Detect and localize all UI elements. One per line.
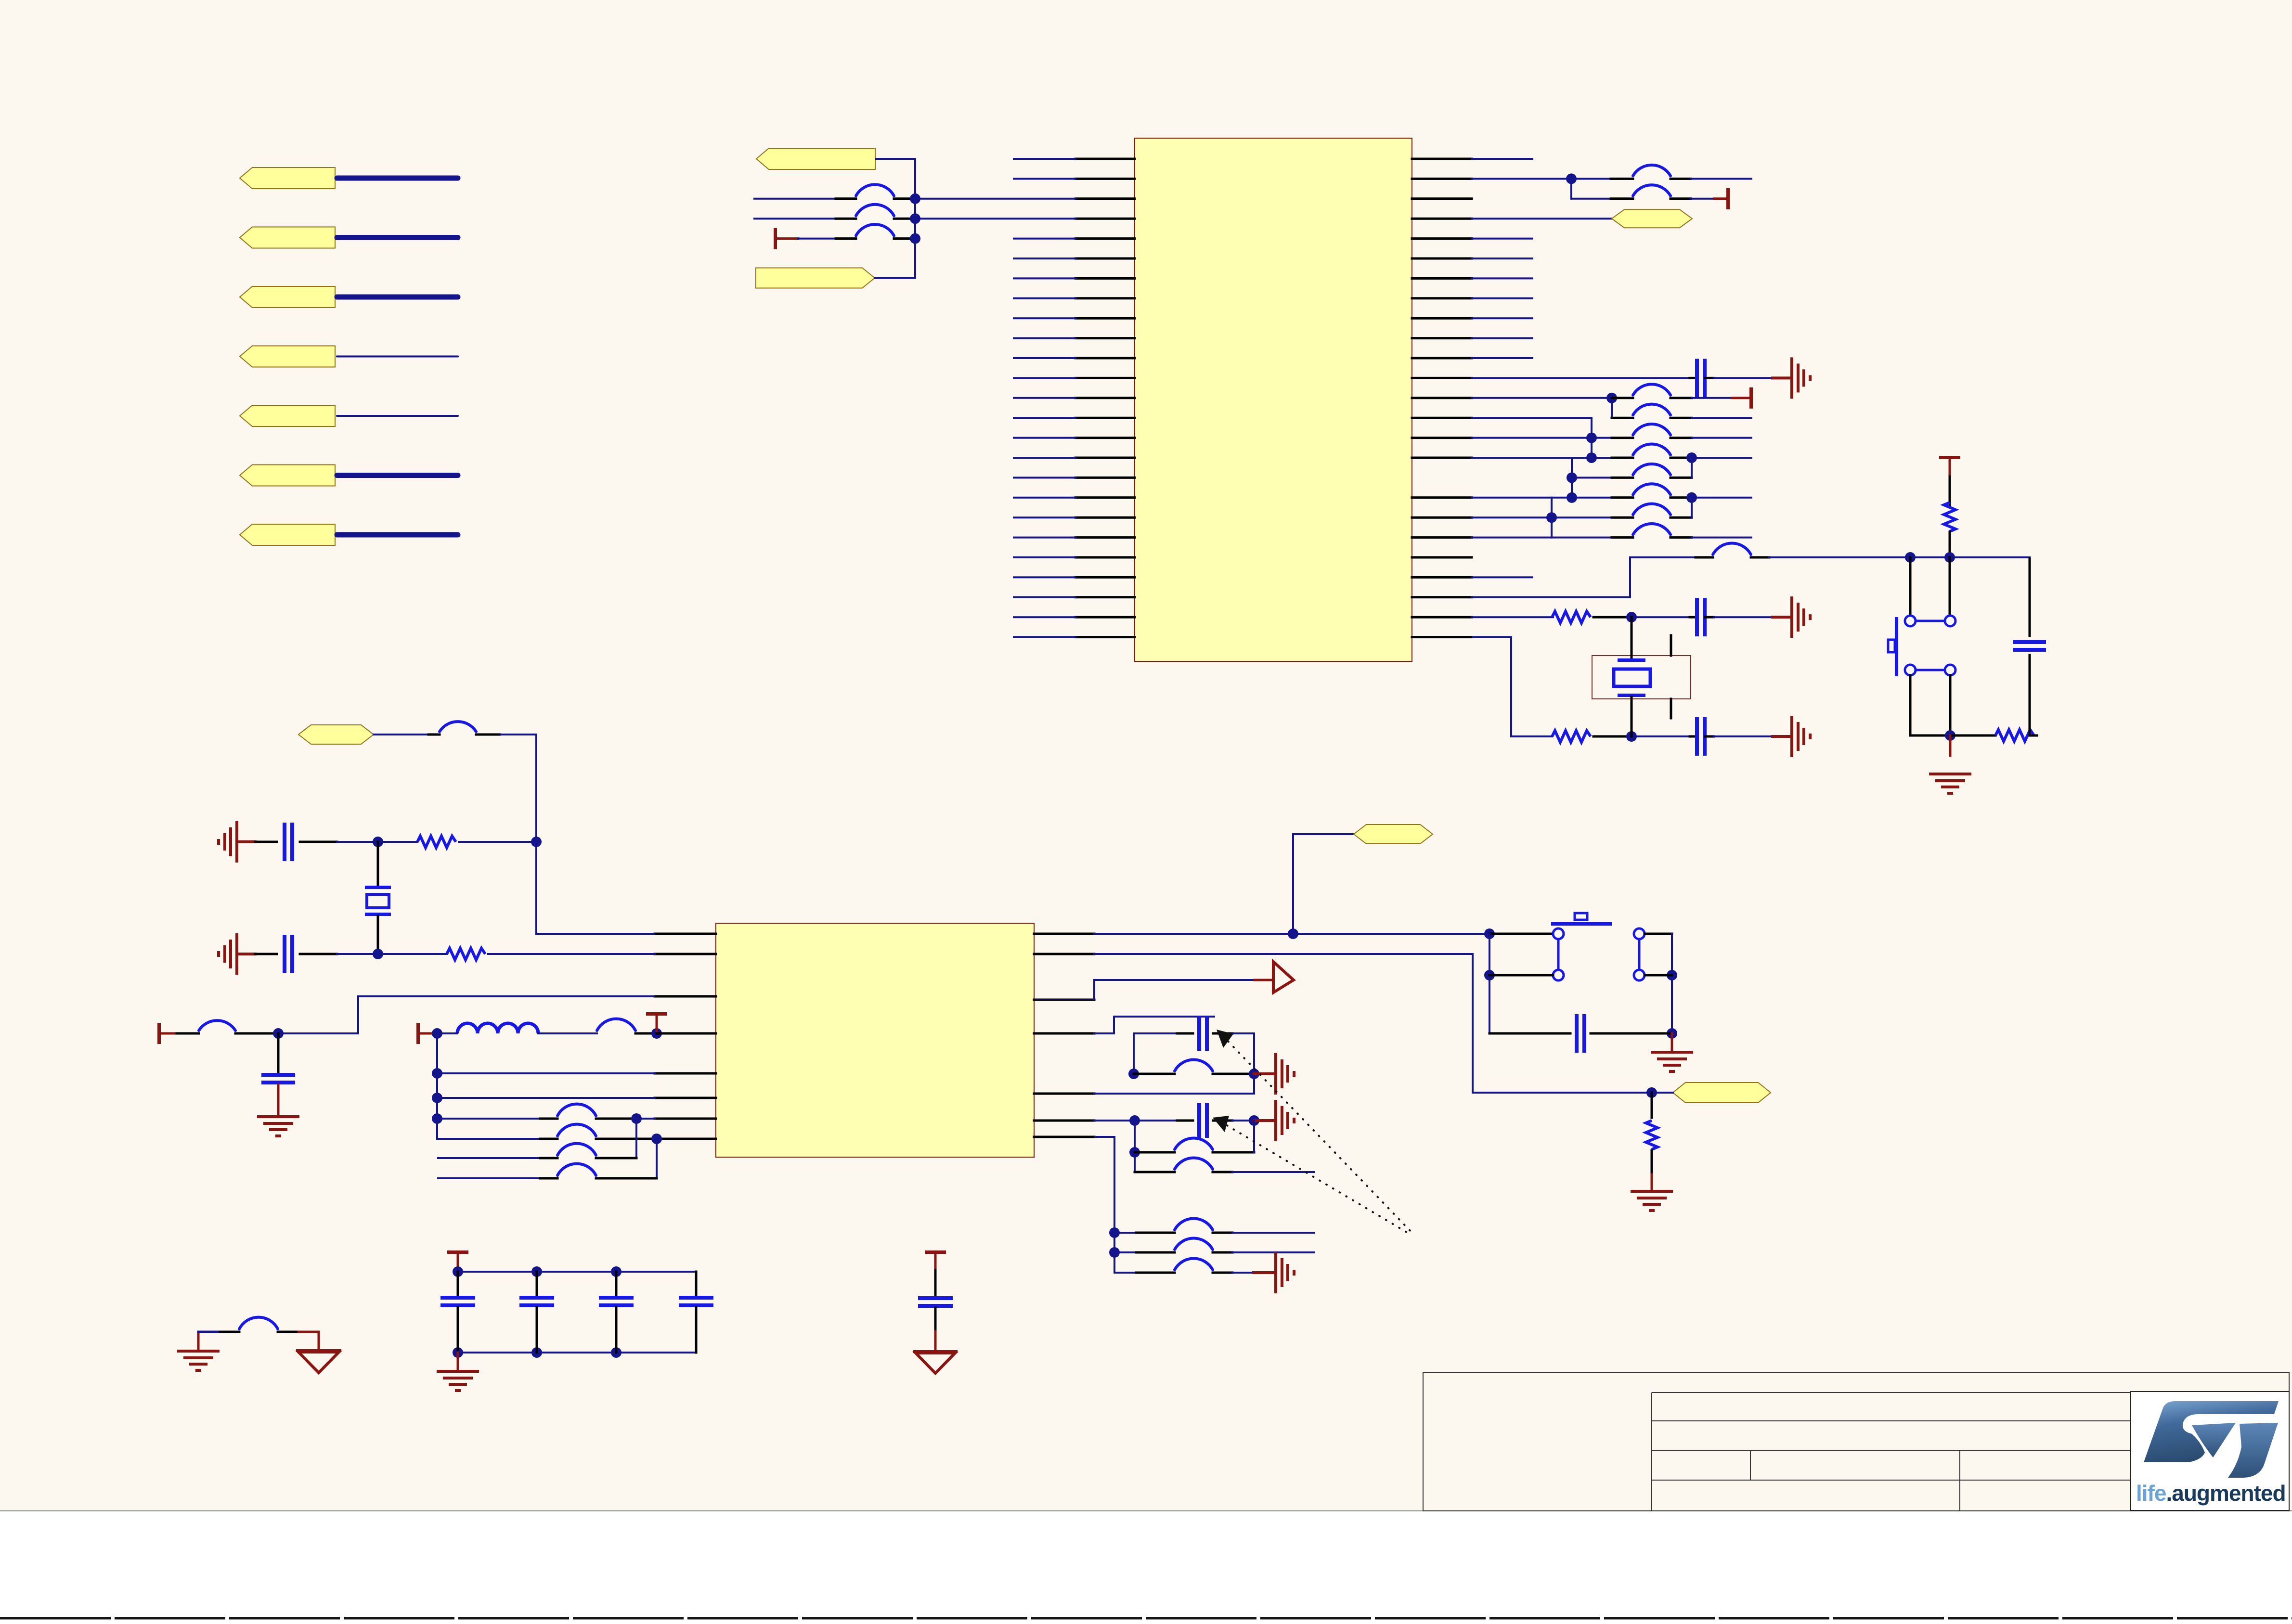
maroon stem xyxy=(1651,1174,1653,1191)
ferrite bead FB (block1) xyxy=(1175,1060,1213,1071)
wire row 2644 xyxy=(1114,1272,1136,1274)
capacitor C (block1) xyxy=(1197,1016,1201,1051)
wire xyxy=(1714,735,1773,737)
U1 left pin row 330.0 xyxy=(1075,158,1135,160)
U2 right pin row 2077 xyxy=(1034,999,1094,1001)
stub xyxy=(278,1331,298,1333)
wire to switch contact xyxy=(1949,557,1951,616)
junction bottom 1 xyxy=(453,1347,463,1358)
junction right 950 xyxy=(1686,452,1697,463)
power bar (reset pullup) xyxy=(1939,456,1960,459)
wire to switch contact xyxy=(1909,557,1912,616)
black lead to node xyxy=(1949,532,1951,557)
wire right to triangle ground xyxy=(298,1332,319,1351)
U1 right pin row 785.4 xyxy=(1412,377,1472,379)
black stub row 868.2 right xyxy=(1670,417,1692,419)
black stub row 909.6 xyxy=(1612,437,1633,439)
junction VDD at pin xyxy=(651,1028,662,1039)
U1 left pin wire stub row 537.0 xyxy=(1014,258,1075,259)
junction 950 xyxy=(1586,452,1597,463)
wire row 2230 xyxy=(437,1072,655,1074)
annotation dotted arrow 2 xyxy=(1220,1121,1411,1235)
net stub row 330.0 xyxy=(1472,158,1532,160)
cap branch lower xyxy=(2029,655,2031,735)
wire from port P5 xyxy=(337,415,458,417)
capacitor C1 (bank) xyxy=(440,1296,475,1300)
U1 left pin wire stub row 868.2 xyxy=(1014,417,1075,419)
wire row 992.4 xyxy=(1572,477,1612,478)
crystal X2 bottom plate xyxy=(365,913,391,916)
capacitor C2 top lead xyxy=(536,1272,538,1296)
wire row 2602 xyxy=(1114,1251,1136,1253)
U1 left pin wire stub row 1075.2 xyxy=(1014,516,1075,518)
stub xyxy=(635,1032,657,1035)
ferrite bead FB row 2602 xyxy=(1175,1238,1213,1250)
junction top 2 xyxy=(531,1266,542,1277)
U1 left pin row 1199.4 xyxy=(1075,576,1135,579)
black stub row 496 right xyxy=(894,237,914,240)
cap row right xyxy=(1591,1032,1672,1035)
U2 left pin row 2366 xyxy=(655,1138,716,1140)
maroon stem to ground xyxy=(1949,735,1952,756)
maroon lead row 413 xyxy=(1714,197,1726,200)
capacitor C4 top lead xyxy=(695,1272,698,1296)
U1 right pin row 661.2 xyxy=(1412,317,1472,320)
capacitor C (row 1749) xyxy=(283,823,286,861)
maroon lead xyxy=(1254,1271,1274,1274)
power bar (single cap) xyxy=(925,1250,946,1254)
arrow lead xyxy=(1255,979,1273,981)
net stub row 744.0 xyxy=(1472,357,1532,359)
wire row 1241 xyxy=(1472,596,1630,598)
wire from contact xyxy=(1645,933,1672,935)
U1 left pin wire stub row 1199.4 xyxy=(1014,576,1075,578)
U1 left pin wire stub row 785.4 xyxy=(1014,377,1075,379)
junction crystal2 bottom xyxy=(373,949,383,959)
stub xyxy=(1213,1073,1254,1075)
IC U1 (main MCU) xyxy=(1135,138,1412,661)
junction 2324 xyxy=(432,1113,442,1124)
wire row 785 cont xyxy=(1714,377,1773,379)
junction row 371 xyxy=(1566,173,1577,184)
black stub row 785 right xyxy=(1705,377,1714,379)
net flag row 454 xyxy=(1612,209,1692,228)
wire xyxy=(337,841,378,843)
wire from port P2 xyxy=(337,235,458,240)
net stub row 702.6 xyxy=(1472,337,1532,339)
bottom dashed border xyxy=(0,1617,2292,1620)
ferrite bead FB row 2644 xyxy=(1175,1259,1213,1270)
U1 left pin row 412.8 xyxy=(1075,197,1135,200)
switch actuator xyxy=(1551,922,1612,926)
stub xyxy=(1213,1171,1232,1173)
U1 left pin row 1075.2 xyxy=(1075,516,1135,519)
black stub row 826.8 xyxy=(1612,397,1633,399)
stub xyxy=(596,1138,657,1140)
ferrite bead FB row 992.4 xyxy=(1633,464,1670,475)
black stub row 412.8 right xyxy=(894,197,915,200)
black stub row 454.2 right xyxy=(894,218,915,220)
block2 left vertical xyxy=(1134,1121,1136,1172)
U1 left pin wire stub row 661.2 xyxy=(1014,317,1075,319)
ferrite bead FB row 951.0 xyxy=(1633,444,1670,455)
stub xyxy=(540,1138,557,1140)
wire row 1940 xyxy=(1094,933,1293,935)
resistor R (row 1982) xyxy=(447,948,485,960)
stub xyxy=(540,1157,557,1160)
junction 1075 xyxy=(1546,512,1557,523)
net stub row 578.4 xyxy=(1472,277,1532,279)
wire from crystal bottom plate xyxy=(1631,697,1633,736)
port P7 (left column) xyxy=(240,524,335,545)
U1 left pin wire stub row 578.4 xyxy=(1014,277,1075,279)
vertical 1033-1116 xyxy=(1551,498,1553,538)
U1 left pin wire stub row 1033.8 xyxy=(1014,497,1075,499)
port flag B (lower left of U1) xyxy=(756,268,875,288)
ground GND (reset) xyxy=(1929,773,1971,775)
capacitor C (reset) xyxy=(2013,640,2046,644)
U2 left pin row 1940 xyxy=(655,933,716,935)
junction block2 right xyxy=(1249,1115,1259,1126)
U2 right pin row 2272 xyxy=(1034,1093,1094,1095)
junction bottom 2 xyxy=(531,1347,542,1358)
wire xyxy=(1651,1150,1653,1174)
wire from contact row2 xyxy=(1645,974,1672,977)
stub xyxy=(1134,1073,1175,1075)
U1 left pin row 744.0 xyxy=(1075,357,1135,360)
net stub row 2406 xyxy=(438,1157,540,1159)
U1 left pin row 951.0 xyxy=(1075,457,1135,459)
capacitor C3 top lead xyxy=(615,1272,618,1296)
net stub row 867 end xyxy=(1692,417,1751,419)
stub xyxy=(1213,1251,1232,1254)
black stub row 1116.6 xyxy=(1612,536,1633,539)
port P2 (left column) xyxy=(240,227,335,248)
jog stub xyxy=(1114,1016,1214,1018)
earth ground (row 1282) xyxy=(1790,596,1793,638)
stub xyxy=(1136,1232,1175,1234)
junction row 454 xyxy=(910,213,920,224)
junction left 2026 xyxy=(1484,970,1495,980)
vertical 867-950 xyxy=(1591,418,1593,458)
U2 left pin row 2281 xyxy=(655,1097,716,1099)
stub xyxy=(300,841,337,843)
cap bank top rail xyxy=(458,1271,696,1273)
wire xyxy=(337,953,378,955)
U1 right pin row 371.4 xyxy=(1412,178,1472,180)
crystal X2 body xyxy=(367,894,389,908)
block2 right vertical xyxy=(1253,1121,1255,1152)
ferrite bead FB row 909.6 xyxy=(1633,424,1670,435)
stub xyxy=(476,734,500,736)
capacitor C (row 1282) xyxy=(1695,598,1699,636)
junction right 1033 xyxy=(1686,492,1697,503)
U1 left pin row 1033.8 xyxy=(1075,496,1135,499)
black stub row 1282 xyxy=(1593,616,1632,619)
U1 left pin wire stub row 330.0 xyxy=(1014,158,1075,160)
svg-text:life.augmented: life.augmented xyxy=(2136,1481,2286,1506)
junction VDD node xyxy=(432,1028,442,1039)
cap bank bottom rail xyxy=(458,1352,696,1353)
ferrite bead FB row 1033.8 xyxy=(1633,484,1670,495)
IC U2 (radio) xyxy=(716,923,1034,1157)
U2 left pin row 2147 xyxy=(655,1032,716,1035)
wire row 1530 cont xyxy=(1632,735,1690,737)
junction on riser row 1749 xyxy=(531,837,542,847)
stub xyxy=(255,841,277,843)
crystal case pin top xyxy=(1670,635,1672,656)
power bar row 826 xyxy=(1749,387,1753,409)
U2 right pin row 1982 xyxy=(1034,953,1094,955)
wire row 951.0 xyxy=(1592,457,1612,459)
earth ground (row 1530) xyxy=(1790,716,1793,757)
junction right 2026 xyxy=(1667,970,1677,980)
stub xyxy=(428,734,440,736)
junction crystal2 top xyxy=(373,837,383,847)
cap bottom lead xyxy=(934,1308,937,1331)
switch actuator xyxy=(1895,617,1898,676)
wire xyxy=(1232,1272,1254,1274)
U1 right pin row 1282.2 xyxy=(1412,616,1472,619)
wire row 1982 xyxy=(1094,953,1473,955)
wire row 1940 cont xyxy=(1293,933,1489,935)
junction row 2324 xyxy=(631,1113,642,1124)
junction top 3 xyxy=(611,1266,622,1277)
wire to flag E xyxy=(1652,1092,1673,1094)
ferrite bead FB (row 2435) xyxy=(1175,1158,1213,1169)
stub xyxy=(1213,1120,1232,1122)
ferrite bead FB row 868.2 xyxy=(1633,404,1670,415)
row 2272 back to U2 xyxy=(1094,1093,1254,1095)
cap row right xyxy=(1232,1032,1254,1034)
output arrow (hollow) xyxy=(1273,962,1294,992)
power ground triangle (single cap) xyxy=(913,1350,958,1353)
stub row 2435 xyxy=(1135,1171,1175,1173)
U1 right pin row 1033.8 xyxy=(1412,496,1472,499)
maroon stem xyxy=(277,1084,280,1117)
junction node B xyxy=(1944,552,1955,563)
ferrite bead FB row 2366 xyxy=(557,1124,596,1136)
vertical 826-867 xyxy=(1611,398,1613,418)
net stub row 537.0 xyxy=(1472,258,1532,259)
U1 right pin row 412.8 xyxy=(1412,197,1472,200)
wire to contact xyxy=(1489,933,1553,935)
U1 left pin row 909.6 xyxy=(1075,437,1135,439)
U1 right pin row 951.0 xyxy=(1412,457,1472,459)
power bar row 413 xyxy=(1726,188,1730,209)
net stub row 661.2 xyxy=(1472,317,1532,319)
capacitor C4 (bank) xyxy=(679,1296,713,1300)
stub xyxy=(1177,1032,1193,1035)
title block table lines xyxy=(1652,1392,2131,1393)
ground GND (SW2) xyxy=(1651,1051,1693,1054)
net stub row 2602 xyxy=(1232,1251,1314,1253)
junction left VDD node xyxy=(273,1028,284,1039)
junction 2281 xyxy=(432,1093,442,1103)
port P3 (left column) xyxy=(240,286,335,308)
U1 left pin row 1116.6 xyxy=(1075,536,1135,539)
port P6 (left column) xyxy=(240,465,335,486)
wire row 1033 xyxy=(1472,497,1572,499)
black stub row 951.0 xyxy=(1612,457,1633,459)
U1 left pin row 578.4 xyxy=(1075,277,1135,280)
junction 1033 xyxy=(1567,492,1577,503)
capacitor C (block2) xyxy=(1197,1103,1201,1138)
wire to U2 pin 1940 xyxy=(500,735,655,934)
ferrite bead FB (VDD) xyxy=(597,1019,635,1031)
ferrite bead FB (block2) xyxy=(1175,1138,1213,1149)
earth ground (row 1749) xyxy=(235,821,238,863)
stub xyxy=(1213,1151,1254,1154)
U1 right pin row 909.6 xyxy=(1412,437,1472,439)
wire row 1116 xyxy=(1472,537,1552,539)
stub xyxy=(596,1157,636,1160)
vertical 371-413 xyxy=(1570,179,1572,198)
capacitor C (row 1982) xyxy=(283,935,286,973)
ferrite bead FB row 496 xyxy=(856,224,894,235)
junction block2 left top xyxy=(1129,1115,1140,1126)
vertical 950-1033 xyxy=(1571,458,1573,498)
U1 right pin row 1158.0 xyxy=(1412,556,1472,559)
maroon lead xyxy=(1773,735,1790,738)
bottom wire xyxy=(1910,735,1950,737)
wire into U2 pin 2147 xyxy=(657,1032,716,1035)
stub xyxy=(1136,1251,1175,1254)
wire row 1033.8 xyxy=(1572,497,1612,499)
inductor L1 xyxy=(457,1023,538,1033)
wire from contact to bottom xyxy=(1949,675,1952,735)
wire row 908 xyxy=(1472,437,1592,439)
junction right 2147 xyxy=(1667,1028,1677,1039)
tie xyxy=(1034,999,1094,1000)
junction 908 xyxy=(1586,433,1597,443)
ferrite bead FB (left) xyxy=(199,1020,235,1031)
U1 left pin wire stub row 951.0 xyxy=(1014,457,1075,459)
wire row 371 cont xyxy=(1571,178,1611,180)
stub xyxy=(1690,735,1696,738)
maroon lead xyxy=(238,840,255,843)
U1 left pin wire stub row 1116.6 xyxy=(1014,537,1075,539)
junction block2 left bottom xyxy=(1129,1147,1140,1158)
ferrite bead FB row 826.8 xyxy=(1633,384,1670,395)
maroon stem xyxy=(934,1331,937,1351)
stub xyxy=(1690,616,1696,619)
black stub row 371 right xyxy=(1670,178,1691,180)
riser to flag D xyxy=(1293,834,1354,934)
wire to riser xyxy=(459,841,536,843)
junction at button xyxy=(1484,928,1495,939)
U1 right pin row 826.8 xyxy=(1412,397,1472,399)
wire to resistor xyxy=(1651,1093,1653,1118)
port flag A (top left of U1) xyxy=(756,148,875,169)
U1 left pin row 1158.0 xyxy=(1075,556,1135,559)
push button SW2 xyxy=(1553,928,1564,939)
ferrite bead FB row 2406 xyxy=(557,1144,596,1155)
wire row 1282 xyxy=(1472,616,1553,618)
junction row 496 xyxy=(910,233,920,244)
power ground triangle (tie right) xyxy=(296,1349,341,1352)
U1 left pin row 619.8 xyxy=(1075,297,1135,299)
left wire row 412.8 xyxy=(754,198,836,200)
stub xyxy=(220,1331,239,1333)
maroon lead row 496 xyxy=(777,237,798,240)
U1 left pin wire stub row 619.8 xyxy=(1014,297,1075,299)
ferrite bead FB row 2324 xyxy=(557,1104,596,1116)
U1 left pin row 537.0 xyxy=(1075,258,1135,260)
wire row 413 cont xyxy=(1691,198,1714,200)
black stub row 785 xyxy=(1690,377,1696,379)
power bar (left) xyxy=(157,1023,161,1044)
capacitor C (left VDD) xyxy=(261,1073,295,1077)
net stub row 1199 xyxy=(1472,576,1532,578)
capacitor C (single) xyxy=(918,1296,953,1300)
wire row 1075 xyxy=(1472,516,1552,518)
U1 right pin row 578.4 xyxy=(1412,277,1472,280)
crystal case pin bottom xyxy=(1670,699,1672,718)
earth ground (row 785) xyxy=(1790,357,1793,399)
logo cell xyxy=(2131,1392,2289,1510)
U1 right pin row 495.6 xyxy=(1412,237,1472,240)
capacitor C4 bottom lead xyxy=(695,1307,698,1353)
stub xyxy=(1136,1272,1175,1274)
ferrite bead FB row 1116.6 xyxy=(1633,524,1670,535)
U1 right pin row 1240.8 xyxy=(1412,596,1472,598)
wire down to row 2270 xyxy=(1473,954,1652,1093)
resistor R (row 1530) xyxy=(1552,731,1591,742)
U1 left pin wire stub row 1282.2 xyxy=(1014,616,1075,618)
resistor R (row 1749) xyxy=(417,836,456,848)
cap row right xyxy=(1232,1120,1254,1121)
ferrite bead FB row 371 xyxy=(1633,165,1670,176)
black lead xyxy=(1949,477,1951,505)
U1 left pin wire stub row 371.4 xyxy=(1014,178,1075,180)
U1 left pin wire stub row 909.6 xyxy=(1014,437,1075,439)
wire xyxy=(378,841,417,843)
black stub row 1033.8 right xyxy=(1670,496,1692,499)
junction 992 xyxy=(1567,472,1577,483)
wire row 2561 xyxy=(1114,1232,1136,1234)
U2 left pin row 2070 xyxy=(655,995,716,998)
U1 left pin row 495.6 xyxy=(1075,237,1135,240)
wire to output arrow xyxy=(1094,980,1255,1000)
wire row 2366 from corner xyxy=(437,1138,463,1140)
black stub row 454.2 xyxy=(836,218,856,220)
wire OSC row 454 to U1 xyxy=(915,218,1075,219)
capacitor C3 (bank) xyxy=(599,1296,634,1300)
U1 left pin row 785.4 xyxy=(1075,377,1135,379)
wire row 2324 xyxy=(437,1118,540,1120)
power bar (U2 VDD) xyxy=(416,1023,420,1044)
resistor R (pullup) xyxy=(1944,503,1955,531)
tie xyxy=(655,1138,657,1139)
wire xyxy=(378,953,447,955)
left vertical xyxy=(1489,934,1490,1033)
net stub row 2561 xyxy=(1232,1232,1314,1234)
junction row 413 xyxy=(910,193,920,204)
U1 left pin wire stub row 702.6 xyxy=(1014,337,1075,339)
wire row 2281 xyxy=(437,1097,655,1099)
U1 left pin wire stub row 1240.8 xyxy=(1014,596,1075,598)
wire row 826 right xyxy=(1692,397,1732,399)
wire row 371 xyxy=(1472,178,1571,180)
U1 right pin row 1075.2 xyxy=(1412,516,1472,519)
wire inductor to FB xyxy=(538,1032,597,1034)
stub xyxy=(596,1118,636,1120)
reset net wire to button xyxy=(1769,556,2030,558)
stub xyxy=(1213,1232,1232,1234)
wire to crystal2 top plate xyxy=(377,842,379,886)
wire xyxy=(1714,616,1773,618)
